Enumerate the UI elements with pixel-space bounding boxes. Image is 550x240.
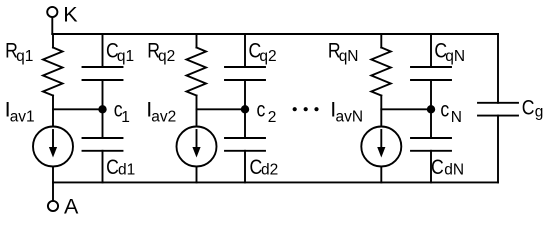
capacitor Cg: [478, 102, 518, 104]
terminal A: [48, 201, 58, 211]
wire rail to Cq1: [102, 34, 104, 67]
wire resistor to source: [196, 96, 198, 127]
resistor RqN: [371, 48, 391, 96]
wire top rail: [52, 33, 498, 35]
wire Cq1 to Cd1: [102, 80, 104, 138]
current source Iav1: [33, 127, 73, 167]
svg-text:1: 1: [121, 109, 130, 126]
svg-text:q2: q2: [158, 48, 175, 65]
wire Cq2 to Cd2: [244, 80, 246, 138]
svg-text:c: c: [257, 98, 266, 122]
svg-text:C: C: [106, 155, 119, 179]
svg-text:K: K: [63, 3, 78, 27]
ellipsis dots (continuation): [293, 107, 297, 111]
wire CqN to CdN: [430, 80, 432, 138]
svg-text:av2: av2: [151, 109, 176, 126]
wire CdN to rail: [430, 151, 432, 183]
svg-text:N: N: [451, 109, 462, 126]
wire node line 2: [197, 108, 246, 110]
svg-text:q2: q2: [259, 48, 276, 65]
svg-text:qN: qN: [445, 48, 465, 65]
svg-text:C: C: [522, 96, 535, 120]
wire source to rail: [52, 167, 54, 183]
wire branchN rail to resistor: [380, 34, 382, 48]
svg-text:q1: q1: [117, 48, 134, 65]
wire resistor to source: [380, 96, 382, 127]
svg-text:d2: d2: [261, 162, 278, 179]
wire rail to Cq2: [244, 34, 246, 67]
wire Cd2 to rail: [244, 151, 246, 183]
svg-text:A: A: [64, 195, 79, 217]
svg-text:qN: qN: [339, 48, 359, 65]
wire node line N: [381, 108, 431, 110]
wire branch1 rail to resistor: [52, 34, 54, 48]
wire Cg to rail: [497, 116, 499, 183]
wire branch2 rail to resistor: [196, 34, 198, 48]
capacitor CqN: [411, 66, 451, 68]
wire node line 1: [53, 108, 103, 110]
resistor Rq1: [43, 48, 63, 96]
wire Cd1 to rail: [102, 151, 104, 183]
wire K to rail: [51, 18, 53, 34]
wire bottom rail: [53, 181, 498, 183]
wire rail to Cg: [497, 34, 499, 103]
svg-text:d1: d1: [118, 162, 135, 179]
current source Iav2: [177, 127, 217, 167]
node c2 junction dot: [241, 105, 249, 113]
terminal K: [47, 7, 57, 17]
wire resistor to source: [52, 96, 54, 127]
wire source to rail: [380, 167, 382, 183]
svg-text:dN: dN: [444, 162, 464, 179]
capacitor Cd2: [225, 137, 265, 139]
svg-text:avN: avN: [336, 109, 364, 126]
svg-text:av1: av1: [10, 109, 35, 126]
resistor Rq2: [187, 48, 207, 96]
wire rail to A: [52, 182, 54, 200]
svg-text:2: 2: [268, 109, 277, 126]
svg-text:g: g: [535, 104, 544, 121]
svg-text:C: C: [431, 155, 444, 179]
wire source to rail: [196, 167, 198, 183]
current source IavN: [361, 127, 401, 167]
capacitor Cq1: [83, 66, 123, 68]
capacitor CdN: [411, 137, 451, 139]
node cN junction dot: [427, 105, 435, 113]
svg-text:q1: q1: [16, 48, 33, 65]
capacitor Cd1: [83, 137, 123, 139]
node c1 junction dot: [98, 105, 106, 113]
wire rail to CqN: [430, 34, 432, 67]
capacitor Cq2: [225, 66, 265, 68]
svg-text:c: c: [440, 98, 449, 122]
